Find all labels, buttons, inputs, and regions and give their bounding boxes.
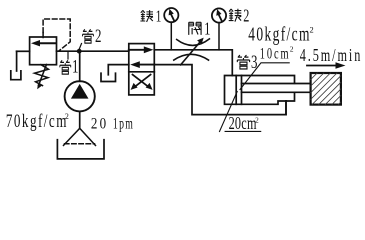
label 錶1 xyxy=(140,10,153,22)
tank T2 (pump reservoir) xyxy=(57,140,104,159)
piston xyxy=(236,76,241,105)
svg-text:3: 3 xyxy=(251,52,257,73)
svg-text:10cm: 10cm xyxy=(260,44,289,62)
gauge G2 drop wire xyxy=(218,23,220,50)
label 20cm2 xyxy=(229,114,257,134)
pilot dashed line xyxy=(42,33,44,38)
wire main line 管2 (relief valve to DCV) xyxy=(57,50,129,52)
svg-text:4.5m/min: 4.5m/min xyxy=(300,46,361,66)
relief valve internal arrow xyxy=(38,42,56,44)
svg-text:1pm: 1pm xyxy=(113,114,133,132)
tank T3 (DCV return) xyxy=(101,73,116,81)
leader 管1 xyxy=(67,52,69,59)
node pump junction xyxy=(77,49,82,54)
relief valve left port line xyxy=(17,50,30,52)
relief valve adjust arrow xyxy=(39,65,47,86)
cylinder barrel xyxy=(225,76,295,105)
label 20 1pm xyxy=(91,115,106,133)
throttle valve 閥1 arcs xyxy=(177,39,210,46)
svg-text:2: 2 xyxy=(95,26,101,47)
gauge G1 drop wire xyxy=(170,22,172,49)
wire relief to tank xyxy=(16,51,18,71)
wire pump suction xyxy=(79,111,81,128)
label 管1 xyxy=(60,60,71,74)
svg-text:2: 2 xyxy=(310,24,314,34)
wire A line (DCV to cylinder, 管3) xyxy=(154,50,232,76)
wire rod-end return xyxy=(285,101,287,115)
svg-text:1: 1 xyxy=(156,8,162,27)
DCV straight arrow P-A xyxy=(129,49,145,51)
leader 20cm2 xyxy=(220,92,238,132)
strainer xyxy=(64,128,96,145)
tank T1 (relief drain) xyxy=(11,71,21,80)
label 管2 xyxy=(83,29,94,43)
svg-text:20: 20 xyxy=(91,115,106,133)
label 10cm2 xyxy=(260,44,289,62)
DCV T stub xyxy=(108,65,129,75)
leader 10cm2 xyxy=(240,63,289,90)
throttle adjust arrow xyxy=(181,42,200,65)
gauge 錶1 xyxy=(164,8,178,22)
DCV U1 4/2 valve body xyxy=(129,44,155,95)
pump P1 xyxy=(65,81,95,111)
DCV straight arrow B-T xyxy=(139,64,154,66)
speed arrow xyxy=(307,65,337,67)
label 40kgf/cm2 xyxy=(248,23,309,45)
svg-text:70kgf/cm: 70kgf/cm xyxy=(6,109,67,131)
label 70kgf/cm2 xyxy=(6,109,67,131)
gauge 錶2 xyxy=(212,8,226,22)
svg-text:1: 1 xyxy=(72,56,78,77)
svg-text:40kgf/cm: 40kgf/cm xyxy=(248,23,309,45)
relief valve spring xyxy=(35,65,49,86)
svg-text:20cm: 20cm xyxy=(229,114,257,134)
label 管3 xyxy=(237,55,249,69)
label 錶2 xyxy=(229,9,242,22)
relief valve RV body xyxy=(30,37,57,65)
label 4.5m/min xyxy=(300,46,361,66)
svg-text:2: 2 xyxy=(290,45,294,54)
svg-text:2: 2 xyxy=(65,111,69,121)
piston rod xyxy=(242,84,311,93)
load W (hatched) xyxy=(311,73,341,105)
DCV crossed arrows xyxy=(133,75,149,87)
svg-text:1: 1 xyxy=(204,19,210,39)
leader 管2 xyxy=(79,44,82,51)
wire B line xyxy=(154,65,286,115)
svg-text:2: 2 xyxy=(255,116,259,125)
wire pump outlet 管1 xyxy=(79,51,81,81)
label 閥1 xyxy=(189,22,201,35)
